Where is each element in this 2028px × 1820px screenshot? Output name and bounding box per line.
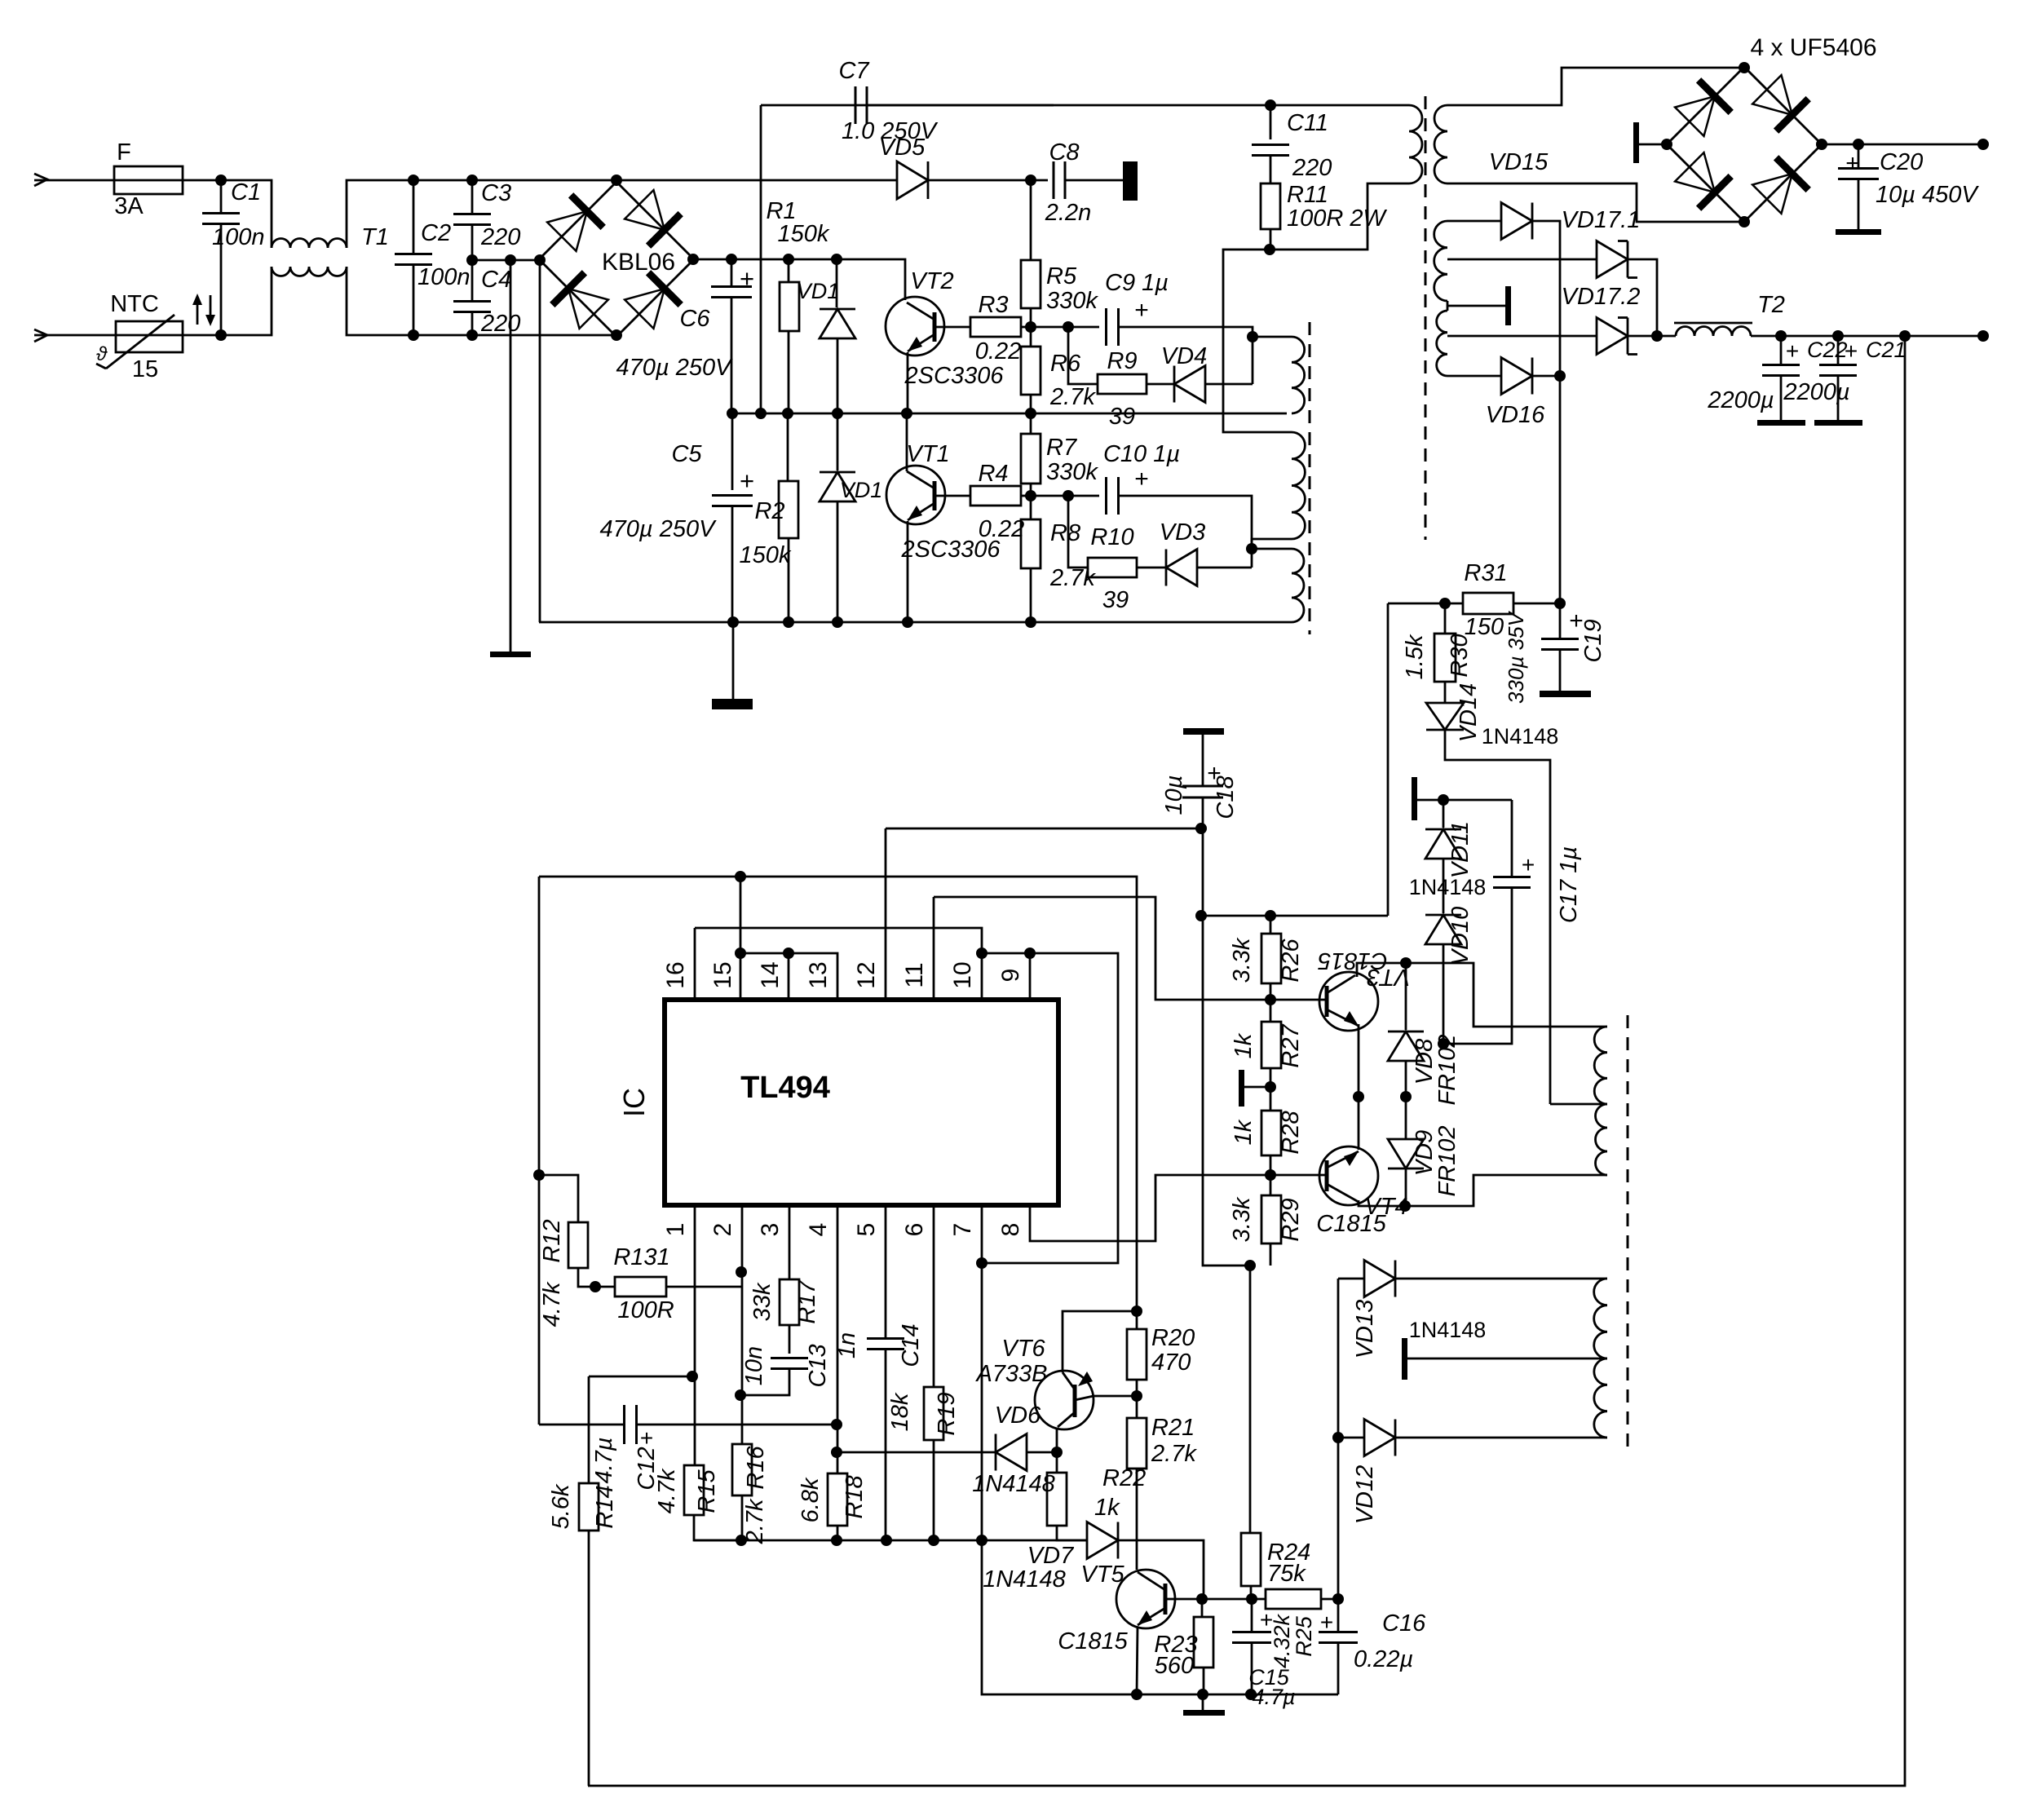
svg-text:2.7k: 2.7k <box>1049 384 1096 410</box>
svg-text:330k: 330k <box>1046 288 1098 314</box>
svg-text:C2: C2 <box>421 220 451 246</box>
svg-text:5.6k: 5.6k <box>548 1483 574 1529</box>
svg-text:C21: C21 <box>1866 338 1906 362</box>
svg-text:R15: R15 <box>694 1469 720 1513</box>
svg-text:VD5: VD5 <box>879 135 926 161</box>
svg-text:R3: R3 <box>978 292 1008 318</box>
svg-text:R22: R22 <box>1102 1465 1146 1491</box>
svg-text:15: 15 <box>709 961 736 988</box>
svg-text:R8: R8 <box>1050 520 1080 546</box>
svg-text:100n: 100n <box>418 264 471 290</box>
svg-text:VD17.2: VD17.2 <box>1562 284 1641 310</box>
svg-text:NTC: NTC <box>110 291 159 317</box>
svg-text:R19: R19 <box>934 1392 960 1435</box>
svg-text:4.7k: 4.7k <box>654 1468 680 1513</box>
svg-text:R11: R11 <box>1287 182 1328 208</box>
svg-text:ϑ: ϑ <box>96 343 108 365</box>
svg-text:VT1: VT1 <box>906 441 949 467</box>
svg-text:1N4148: 1N4148 <box>983 1566 1066 1592</box>
svg-text:2200µ: 2200µ <box>1783 379 1849 405</box>
svg-text:FR102: FR102 <box>1434 1125 1460 1196</box>
svg-text:0.22: 0.22 <box>979 516 1024 542</box>
svg-text:T2: T2 <box>1757 292 1785 318</box>
svg-text:+: + <box>1320 1610 1333 1635</box>
svg-text:+: + <box>1522 852 1535 877</box>
svg-text:1N4148: 1N4148 <box>1409 1318 1487 1342</box>
svg-text:150k: 150k <box>778 221 830 247</box>
svg-text:2: 2 <box>709 1223 736 1237</box>
svg-text:R16: R16 <box>743 1446 769 1490</box>
svg-text:39: 39 <box>1102 587 1129 613</box>
svg-text:14: 14 <box>757 961 784 988</box>
svg-text:10µ: 10µ <box>1161 775 1187 815</box>
svg-text:VT6: VT6 <box>1001 1336 1045 1362</box>
svg-text:R18: R18 <box>842 1475 868 1518</box>
svg-text:R28: R28 <box>1278 1111 1304 1154</box>
svg-text:9: 9 <box>997 969 1024 983</box>
svg-text:+: + <box>1134 466 1149 493</box>
svg-text:R29: R29 <box>1278 1198 1304 1241</box>
svg-text:C3: C3 <box>481 180 511 206</box>
svg-text:R5: R5 <box>1046 263 1077 289</box>
svg-text:1N4148: 1N4148 <box>1409 875 1487 899</box>
svg-text:220: 220 <box>1292 155 1332 181</box>
svg-text:VD3: VD3 <box>1160 519 1205 546</box>
svg-text:4 x UF5406: 4 x UF5406 <box>1750 34 1876 61</box>
svg-text:C6: C6 <box>679 306 710 332</box>
svg-text:C1815: C1815 <box>1316 1211 1386 1237</box>
svg-text:VD1: VD1 <box>840 478 883 502</box>
svg-text:3.3k: 3.3k <box>1229 1196 1255 1242</box>
svg-text:1.5k: 1.5k <box>1402 634 1428 679</box>
svg-text:+: + <box>740 466 754 495</box>
svg-text:+: + <box>1134 297 1149 324</box>
svg-text:+: + <box>1260 1607 1273 1632</box>
svg-text:4.7µ: 4.7µ <box>591 1437 617 1483</box>
svg-text:VT2: VT2 <box>910 268 953 294</box>
svg-text:16: 16 <box>662 961 689 988</box>
svg-text:R4: R4 <box>978 461 1008 487</box>
svg-text:VD16: VD16 <box>1486 402 1545 428</box>
svg-text:C4: C4 <box>481 267 511 293</box>
svg-text:R30: R30 <box>1447 634 1473 677</box>
svg-text:R14: R14 <box>592 1485 618 1528</box>
svg-text:2200µ: 2200µ <box>1707 387 1774 413</box>
svg-text:C8: C8 <box>1049 139 1079 166</box>
svg-text:VD11: VD11 <box>1447 821 1474 878</box>
svg-text:39: 39 <box>1109 404 1135 430</box>
svg-text:12: 12 <box>853 961 880 988</box>
svg-text:R10: R10 <box>1090 524 1133 550</box>
svg-text:VD7: VD7 <box>1027 1543 1075 1569</box>
svg-text:470: 470 <box>1151 1350 1191 1376</box>
svg-text:R131: R131 <box>613 1244 669 1270</box>
svg-text:C18: C18 <box>1213 775 1239 819</box>
svg-text:R2: R2 <box>754 498 784 524</box>
svg-text:470µ 250V: 470µ 250V <box>616 355 734 381</box>
svg-text:VD1: VD1 <box>797 279 840 303</box>
svg-text:IC: IC <box>617 1088 651 1117</box>
svg-text:C11: C11 <box>1287 110 1328 136</box>
svg-text:C17 1µ: C17 1µ <box>1556 846 1582 923</box>
svg-text:1k: 1k <box>1230 1119 1257 1145</box>
svg-text:1: 1 <box>662 1223 689 1237</box>
svg-text:1n: 1n <box>834 1332 860 1358</box>
svg-text:VD13: VD13 <box>1352 1300 1378 1359</box>
svg-text:C1815: C1815 <box>1058 1628 1128 1654</box>
svg-text:C14: C14 <box>898 1323 924 1367</box>
svg-text:75k: 75k <box>1267 1561 1306 1587</box>
svg-text:10: 10 <box>949 961 976 988</box>
svg-text:R25: R25 <box>1292 1615 1316 1657</box>
svg-text:3A: 3A <box>114 193 144 219</box>
svg-text:C7: C7 <box>838 58 870 84</box>
svg-text:4.32k: 4.32k <box>1270 1613 1294 1668</box>
svg-text:33k: 33k <box>749 1282 775 1321</box>
svg-text:100n: 100n <box>212 224 265 250</box>
svg-text:+: + <box>640 1425 653 1451</box>
svg-text:VD12: VD12 <box>1352 1465 1378 1525</box>
svg-text:C5: C5 <box>671 441 702 467</box>
svg-text:VD14: VD14 <box>1456 683 1482 743</box>
svg-text:100R 2W: 100R 2W <box>1287 205 1388 232</box>
svg-text:R17: R17 <box>794 1279 820 1324</box>
svg-text:+: + <box>1845 338 1858 364</box>
svg-text:+: + <box>740 264 754 293</box>
svg-text:4.7µ: 4.7µ <box>1252 1685 1295 1709</box>
svg-text:R21: R21 <box>1151 1415 1195 1441</box>
svg-text:C19: C19 <box>1580 619 1606 662</box>
svg-text:R26: R26 <box>1278 939 1304 983</box>
svg-text:VT5: VT5 <box>1080 1562 1124 1588</box>
svg-text:C9 1µ: C9 1µ <box>1105 270 1169 296</box>
svg-text:1N4148: 1N4148 <box>972 1471 1055 1497</box>
svg-text:4.7k: 4.7k <box>539 1281 565 1327</box>
svg-text:C13: C13 <box>805 1344 831 1387</box>
svg-text:150k: 150k <box>740 542 792 568</box>
svg-text:A733B: A733B <box>974 1361 1047 1387</box>
svg-text:1N4148: 1N4148 <box>1482 724 1559 749</box>
svg-text:T1: T1 <box>361 224 389 250</box>
svg-text:8: 8 <box>997 1223 1024 1237</box>
svg-text:2.7k: 2.7k <box>742 1498 768 1544</box>
svg-text:220: 220 <box>480 311 520 337</box>
svg-text:560: 560 <box>1155 1653 1194 1679</box>
svg-text:VD4: VD4 <box>1161 343 1207 369</box>
svg-text:220: 220 <box>480 224 520 250</box>
svg-text:7: 7 <box>949 1223 976 1237</box>
svg-text:R31: R31 <box>1464 560 1507 586</box>
svg-text:15: 15 <box>132 356 158 382</box>
svg-text:3.3k: 3.3k <box>1229 937 1255 983</box>
svg-text:R12: R12 <box>539 1219 565 1262</box>
svg-text:R7: R7 <box>1046 435 1078 461</box>
svg-text:10µ 450V: 10µ 450V <box>1876 182 1979 208</box>
svg-text:1k: 1k <box>1094 1495 1120 1521</box>
svg-text:C20: C20 <box>1880 149 1923 175</box>
svg-text:F: F <box>117 139 131 166</box>
svg-text:C1: C1 <box>231 179 261 205</box>
svg-text:11: 11 <box>901 962 928 987</box>
svg-text:330k: 330k <box>1046 459 1098 485</box>
svg-text:+: + <box>1845 150 1860 177</box>
svg-text:R9: R9 <box>1107 348 1137 374</box>
svg-text:0.22µ: 0.22µ <box>1354 1646 1413 1672</box>
svg-text:VD15: VD15 <box>1489 149 1549 175</box>
svg-text:C10 1µ: C10 1µ <box>1103 441 1180 467</box>
svg-text:6: 6 <box>901 1223 928 1237</box>
svg-text:5: 5 <box>853 1223 880 1237</box>
svg-text:330µ 35V: 330µ 35V <box>1504 610 1528 704</box>
svg-text:+: + <box>1786 338 1799 364</box>
svg-text:TL494: TL494 <box>740 1071 830 1105</box>
svg-text:R6: R6 <box>1050 351 1081 377</box>
svg-text:13: 13 <box>805 961 832 988</box>
svg-text:6.8k: 6.8k <box>798 1477 824 1522</box>
svg-text:C22: C22 <box>1807 338 1848 362</box>
svg-text:470µ 250V: 470µ 250V <box>600 516 718 542</box>
svg-text:VT3: VT3 <box>1367 964 1410 990</box>
svg-text:0.22: 0.22 <box>975 338 1021 364</box>
svg-text:R20: R20 <box>1151 1325 1195 1351</box>
svg-text:R27: R27 <box>1278 1023 1304 1068</box>
svg-text:3: 3 <box>757 1223 784 1237</box>
svg-text:KBL06: KBL06 <box>602 249 675 276</box>
svg-text:C16: C16 <box>1382 1610 1426 1637</box>
svg-text:4: 4 <box>805 1223 832 1237</box>
svg-text:2.7k: 2.7k <box>1151 1441 1197 1467</box>
svg-text:2.2n: 2.2n <box>1045 200 1091 226</box>
svg-text:2SC3306: 2SC3306 <box>904 363 1005 389</box>
svg-text:100R: 100R <box>617 1297 674 1323</box>
svg-text:18k: 18k <box>887 1392 913 1431</box>
svg-text:VD10: VD10 <box>1447 907 1474 966</box>
svg-text:1k: 1k <box>1230 1032 1257 1058</box>
svg-text:10n: 10n <box>741 1346 767 1385</box>
svg-text:VD17.1: VD17.1 <box>1562 207 1641 233</box>
